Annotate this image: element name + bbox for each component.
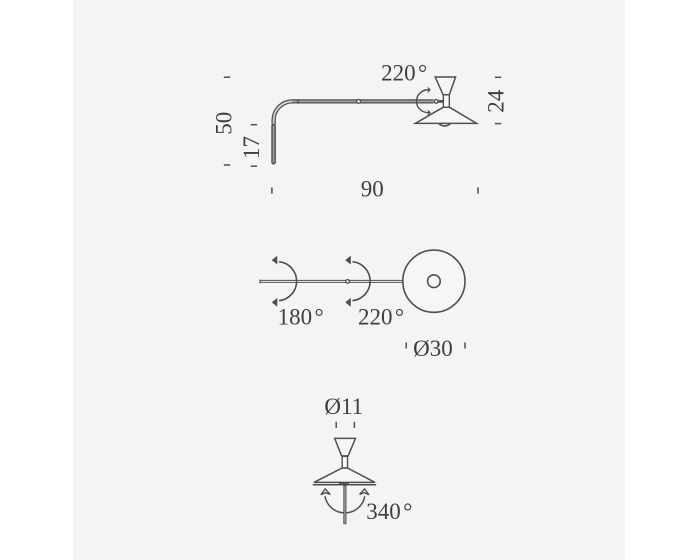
dimension 17 ticks	[251, 125, 257, 167]
grey photo panel	[73, 0, 625, 560]
rotation arc 220 (top view)	[353, 262, 371, 301]
mid swivel circle (top view)	[346, 280, 350, 284]
arrowhead top of 180 arc	[272, 256, 278, 265]
arrowhead left of 340 arc	[321, 489, 330, 495]
svg-text:Ø11: Ø11	[324, 394, 363, 419]
svg-text:50: 50	[212, 112, 237, 135]
arrowhead bottom of 220 arc (top view)	[345, 298, 351, 307]
upper cone (front view)	[335, 438, 356, 456]
rotation arc 180	[279, 262, 297, 301]
rotation arc 220 (side view)	[416, 90, 430, 113]
inner hub circle	[428, 275, 441, 288]
pivot stub to lamp neck	[438, 100, 443, 103]
svg-text:90: 90	[361, 177, 384, 202]
arm end cap	[259, 280, 261, 284]
pivot circle at arm end	[434, 99, 438, 103]
svg-text:Ø30: Ø30	[413, 336, 453, 361]
dimension 24 ticks	[495, 77, 501, 123]
svg-text:180 °: 180 °	[278, 305, 324, 330]
stem cap	[338, 483, 351, 486]
arm tube (top view, double line)	[260, 280, 403, 283]
shade (front view)	[314, 468, 375, 482]
svg-text:220 °: 220 °	[381, 61, 427, 86]
bulb bump under shade	[439, 124, 450, 126]
neck (front view)	[342, 456, 347, 468]
diameter 11 ticks	[336, 422, 354, 428]
svg-text:220 °: 220 °	[358, 305, 404, 330]
arrowhead top of 220 arc (top view)	[345, 256, 351, 265]
rotation arc 340	[325, 496, 365, 513]
arm tube (curved + horizontal, double line)	[274, 101, 434, 124]
tube joint tick	[297, 99, 299, 104]
lamp neck	[443, 95, 449, 108]
diameter 30 ticks	[406, 342, 465, 348]
arrowhead right of 340 arc	[360, 489, 369, 495]
mid-arm swivel circle	[357, 100, 361, 104]
wall mount bracket	[271, 126, 276, 162]
svg-text:17: 17	[239, 136, 264, 159]
svg-text:340 °: 340 °	[366, 499, 412, 524]
lamp shade (lower cone)	[415, 107, 476, 123]
arrowhead top of 220 arc	[427, 87, 431, 94]
upper cone (funnel) of lamp head	[435, 77, 455, 95]
stem (double line)	[343, 485, 346, 524]
shade circle (top view)	[403, 250, 465, 312]
shade bottom lip line	[313, 484, 376, 486]
dimension 90 ticks	[272, 187, 478, 193]
arrowhead bottom of 220 arc	[427, 109, 431, 116]
dimension 50 ticks	[224, 77, 230, 165]
arrowhead bottom of 180 arc	[272, 298, 278, 307]
svg-text:24: 24	[484, 89, 509, 113]
